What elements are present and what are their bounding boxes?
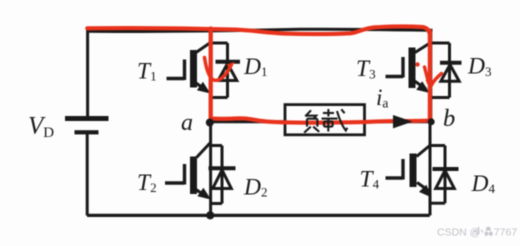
transistor T1 (IGBT): [167, 43, 211, 94]
svg-text:7767: 7767: [494, 227, 518, 239]
red arrow through diode D1: [205, 58, 235, 81]
red dot on T3: [415, 62, 419, 66]
svg-text:T2: T2: [137, 170, 157, 196]
svg-text:D4: D4: [471, 171, 496, 197]
svg-text:D1: D1: [243, 54, 267, 80]
wire: load line node a to load box: [211, 120, 286, 123]
label T1: [137, 59, 157, 85]
current arrow ia on load line: [393, 115, 413, 128]
svg-text:VD: VD: [28, 113, 54, 141]
node a junction dot: [206, 119, 214, 127]
wire: T3/D3 branch (top rail to node b): [429, 30, 432, 122]
diode D4 (antiparallel with T4): [431, 146, 459, 204]
label: load text 负载: [304, 109, 347, 133]
wire: left rail upper (top rail to battery +): [86, 30, 89, 117]
label node a: [181, 110, 193, 136]
transistor T3 (IGBT): [386, 43, 431, 94]
wire: bottom rail: [87, 214, 430, 217]
svg-text:D2: D2: [243, 175, 267, 201]
label D4: [471, 171, 496, 197]
node b junction dot: [428, 118, 435, 125]
label VD (voltage source): [28, 113, 54, 141]
diode D3 (antiparallel with T3): [432, 43, 462, 98]
wire: left rail lower (battery - to bottom rail): [86, 134, 89, 216]
label T4: [360, 167, 380, 193]
label T3: [356, 56, 376, 82]
wire: load line load box to node b: [364, 120, 430, 123]
red arrow through transistor T3: [425, 67, 442, 89]
battery VD positive plate: [65, 116, 109, 121]
label D1: [243, 54, 267, 80]
highlighted current path: load line from node b to node a (red): [211, 118, 430, 122]
svg-text:b: b: [443, 105, 455, 132]
highlighted current path: top rail (red): [87, 27, 429, 35]
highlighted current path: T3 branch down to node b (red): [428, 31, 432, 120]
load box (负载) border: [285, 105, 365, 135]
svg-text:T3: T3: [356, 56, 376, 82]
svg-text:T4: T4: [360, 167, 380, 193]
diode D2 (antiparallel with T2): [209, 146, 236, 204]
wire: top rail: [88, 29, 433, 31]
highlighted current path: D1 branch node a up to top rail (red): [209, 29, 213, 120]
wire: T2/D2 branch (node a to bottom rail): [209, 123, 212, 216]
svg-text:D3: D3: [467, 54, 491, 80]
battery VD negative plate: [75, 130, 99, 134]
watermark CSDN: [437, 226, 517, 238]
svg-text:T1: T1: [137, 59, 157, 85]
junction dot: T2 branch / bottom rail: [206, 211, 214, 219]
wire: T4/D4 branch (node b to bottom rail): [429, 122, 432, 215]
label D2: [243, 175, 267, 201]
svg-text:a: a: [181, 110, 193, 136]
label D3: [467, 54, 491, 80]
transistor T2 (IGBT): [165, 143, 211, 200]
label current ia: [376, 85, 388, 111]
transistor T4 (IGBT): [386, 145, 432, 198]
svg-text:CSDN @: CSDN @: [437, 227, 480, 239]
wire: T1/D1 branch (top rail to node a): [209, 31, 212, 122]
diode D1 (antiparallel with T1): [211, 43, 240, 98]
label node b: [443, 105, 455, 132]
svg-text:ia: ia: [376, 85, 388, 111]
label T2: [137, 170, 157, 196]
